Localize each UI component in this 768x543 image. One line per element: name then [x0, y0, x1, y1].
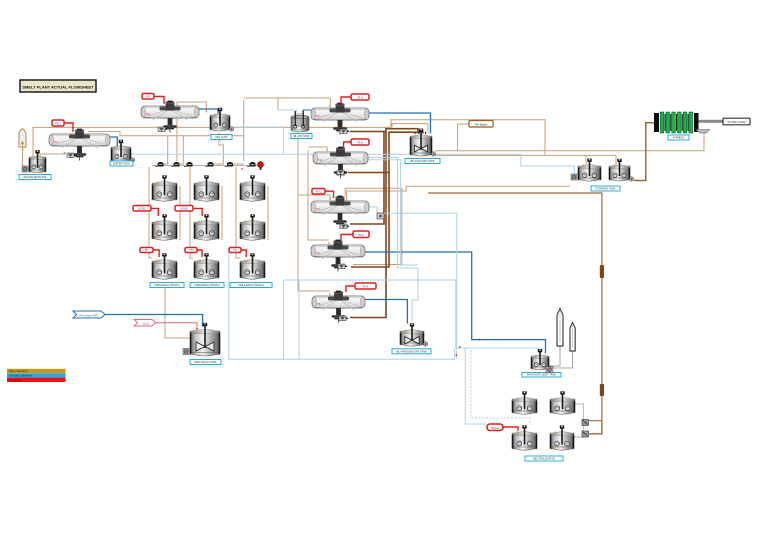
- tag CF-A: [351, 94, 369, 100]
- pump P4 valve row: [205, 162, 214, 167]
- coupling on brown vertical lower: [600, 384, 604, 396]
- ion exchange column IX2: [570, 323, 575, 352]
- pump P2 valve row: [171, 162, 180, 167]
- pipe blue CF-E overflow to BT2: [365, 300, 407, 324]
- arrow tan into CF-C: [329, 198, 331, 200]
- label leach train 2: [190, 283, 224, 288]
- pipe tan branch up to Pre-Beath box: [458, 124, 469, 151]
- pipe blue CF-A overflow to BT1: [369, 113, 431, 134]
- funnel under C2: [158, 127, 168, 132]
- label tank pair: [591, 186, 620, 191]
- tank N3: [512, 425, 537, 450]
- pipe tan MT2 inlet drop: [277, 98, 279, 110]
- funnel under CF-D: [338, 264, 348, 269]
- svg-text:PH: PH: [145, 249, 149, 252]
- arrow red small near valve row: [241, 168, 243, 170]
- svg-text:Pre-Beath: Pre-Beath: [475, 122, 488, 126]
- pipe tan CF-B inlet: [308, 147, 327, 151]
- arrow red on CF-D line: [479, 339, 481, 341]
- svg-text:Lime: Lime: [143, 321, 150, 325]
- pipe light-blue CF-B overflow companion: [367, 160, 418, 265]
- pipe tan grid col2 left drop: [190, 167, 193, 258]
- svg-text:MIX TANK: MIX TANK: [215, 135, 227, 139]
- svg-text:PRE-LEACH TRAIN 1: PRE-LEACH TRAIN 1: [154, 283, 180, 287]
- pipe light-blue box overflow line: [384, 213, 457, 359]
- label leach train 1: [150, 283, 184, 288]
- legend bar solution streams: [7, 373, 66, 377]
- tank ST3 wash water: [531, 349, 553, 370]
- pipe tan drop to valve P2: [180, 136, 183, 164]
- gray bar press to label: [697, 120, 723, 123]
- svg-text:FE-2: FE-2: [145, 95, 151, 98]
- pipe tan MT2 outlet to CF-C and CF-E: [298, 131, 330, 291]
- label MT2: [291, 134, 312, 139]
- pipe tan stub into storage tank TP1: [585, 155, 587, 170]
- tank leach R1C3: [240, 175, 265, 201]
- label neutralization: [525, 456, 563, 461]
- svg-text:NaOH: NaOH: [491, 426, 498, 430]
- arrow tan into CF-B: [326, 149, 328, 151]
- pipe tan ST1 riser long run to storage tanks: [33, 120, 545, 156]
- label ST3: [522, 373, 561, 378]
- svg-text:FE-1: FE-1: [55, 122, 61, 125]
- svg-text:PRE-LEACH TANK: PRE-LEACH TANK: [194, 360, 217, 364]
- red line T2 to C2 hub: [154, 97, 164, 105]
- red line CF-A tag: [341, 97, 351, 104]
- svg-text:T2: T2: [318, 158, 322, 162]
- arrow tan into CF-E: [329, 293, 331, 295]
- svg-text:Main Streams: Main Streams: [9, 369, 28, 373]
- red line pill to N3: [503, 427, 518, 431]
- svg-text:ML HANDLING MIX TANK: ML HANDLING MIX TANK: [396, 349, 427, 353]
- label ST1: [19, 175, 51, 180]
- thin line valve row: [152, 165, 258, 167]
- red pill tag: [487, 424, 503, 431]
- pipe gray tank TR to valve1: [575, 404, 584, 437]
- pipe brown branch valve2: [589, 421, 602, 434]
- thickener CF-D: [311, 240, 365, 272]
- red line CF-B tag: [344, 142, 351, 148]
- pipe tan stub into storage tank TP2: [615, 155, 617, 170]
- svg-text:T1: T1: [316, 114, 320, 118]
- pipe dark-brown CF-B funnel lateral: [348, 172, 389, 174]
- funnel under CF-C: [340, 224, 350, 229]
- arrow red lime into BT3: [196, 328, 198, 330]
- tank TP2 storage: [609, 159, 634, 182]
- tag T1 on C1: [52, 120, 64, 126]
- pipe tan thickener C1 overflow elbow: [88, 132, 244, 136]
- tank ST1 settler: [22, 150, 46, 173]
- arrow tan into CF-A: [329, 105, 331, 107]
- pipe gray column1 drain: [552, 346, 560, 366]
- label BT3: [190, 360, 221, 365]
- label leach train 3: [230, 283, 272, 288]
- pipe light-blue header y280 to ST3: [284, 280, 539, 353]
- tank ST2: [111, 140, 135, 162]
- pipe tan grid col1 right riser: [179, 186, 181, 240]
- pipe dark-brown CF-E funnel riser to BT1: [350, 129, 418, 318]
- valve VN2: [582, 431, 589, 437]
- tank leach R2C2: [194, 214, 219, 240]
- svg-text:FILTER CAKE: FILTER CAKE: [728, 120, 746, 124]
- tank MT2 twin agitator tank: [291, 111, 309, 132]
- pipe dark-brown CF-D funnel riser to BT1: [351, 132, 423, 267]
- svg-text:LEVEL: LEVEL: [180, 207, 188, 210]
- svg-text:FE-D: FE-D: [358, 234, 364, 237]
- pump P1 valve row: [155, 162, 164, 167]
- red ball valve end of row: [258, 162, 264, 171]
- tank leach R3C3: [240, 253, 265, 279]
- svg-text:F-PRESS: F-PRESS: [673, 136, 685, 140]
- legend bar reagents: [7, 378, 66, 382]
- svg-text:RE-PULP MIX TANK: RE-PULP MIX TANK: [411, 159, 435, 163]
- thickener C2: [141, 101, 199, 133]
- tag grid R3C1: [140, 248, 153, 253]
- funnel under CF-A: [340, 129, 350, 134]
- pipe light-blue drop to red pill tag: [465, 348, 486, 424]
- red line CF-E tag: [346, 286, 355, 292]
- svg-text:C2: C2: [146, 112, 150, 116]
- pipe tan long run BT1 pump to press funnel: [435, 133, 704, 151]
- label filter press: [668, 135, 689, 140]
- pipe gray tank BR to valve2: [573, 434, 584, 437]
- svg-text:STORAGE TANK: STORAGE TANK: [595, 187, 615, 191]
- arrow tan into V1: [21, 148, 24, 150]
- label MT1: [211, 135, 232, 140]
- pipe tan CF loop to CF-D: [345, 188, 402, 264]
- svg-text:T5: T5: [317, 302, 321, 306]
- pipe dark-brown CF-C funnel riser: [350, 132, 386, 225]
- filter press PF1: [654, 112, 699, 133]
- pipe light-blue drop to TP1 pump: [521, 154, 575, 177]
- tank BT2 ML handling: [400, 323, 428, 346]
- svg-text:T4: T4: [316, 251, 320, 255]
- svg-text:Pre-Leach SPL: Pre-Leach SPL: [80, 313, 99, 317]
- label ST2: [110, 161, 133, 166]
- thickener CF-E: [312, 291, 365, 323]
- valve VN1: [582, 420, 589, 426]
- svg-text:Reagents: Reagents: [9, 378, 22, 382]
- arrow tan into funnel F1: [64, 151, 66, 154]
- pipe tan drop to valve P1: [163, 136, 168, 164]
- tag grid R3C3: [229, 248, 241, 253]
- legend texts: [9, 369, 32, 382]
- pump P6 valve row: [247, 162, 256, 167]
- pipe blue C1 overflow to ST2: [110, 137, 117, 146]
- title block: [20, 80, 96, 92]
- funnel under CF-B: [337, 170, 347, 175]
- pump P3 valve row: [184, 162, 193, 167]
- pipe blue Pre-Leach SPL feed to BT3: [105, 315, 203, 328]
- pipe tan long vertical to neutralization tanks: [428, 193, 602, 421]
- svg-text:ML MIX TANK: ML MIX TANK: [293, 134, 310, 138]
- pipe light-blue CF-C overflow to box: [369, 207, 377, 213]
- coupling on brown vertical upper: [600, 265, 604, 278]
- tag grid R2C2: [175, 206, 193, 212]
- vessel V1 density column: [19, 129, 26, 147]
- pipe tan CF-B CF-D feeder: [308, 150, 329, 240]
- pipe tan branch to CF-C: [298, 195, 330, 200]
- svg-text:PH: PH: [233, 249, 237, 252]
- red line grid R3C1: [153, 250, 159, 257]
- red line grid R2C2: [193, 208, 202, 216]
- tank N1: [512, 391, 537, 414]
- brown box tag Pre-Beath: [469, 121, 493, 128]
- red line T1 to C1 hub: [64, 123, 73, 132]
- pipe tan grid col1 outlet to BT3: [165, 288, 190, 338]
- press discharge tray: [696, 130, 710, 134]
- svg-text:WASH EFFLUENT TANK: WASH EFFLUENT TANK: [527, 373, 556, 377]
- arrow red cluster 2: [455, 354, 457, 356]
- svg-text:SOLIDS SETTLING: SOLIDS SETTLING: [24, 175, 47, 179]
- funnel under CF-E: [339, 316, 349, 321]
- red line grid R2C1: [151, 208, 158, 216]
- tank leach R2C3: [240, 214, 265, 240]
- legend bar main streams: [7, 369, 66, 373]
- red line grid R3C2: [197, 250, 202, 257]
- svg-text:PRE-LEACH TRAIN 3: PRE-LEACH TRAIN 3: [238, 283, 264, 287]
- svg-text:Solution Streams: Solution Streams: [9, 374, 32, 378]
- tag CF-D: [353, 231, 369, 238]
- pipe blue CF-D overflow to ST3: [365, 252, 546, 353]
- pipe tan feed header storage tanks: [435, 154, 616, 156]
- tank leach R1C1: [152, 175, 177, 201]
- pipe gray column2 drain: [553, 351, 573, 368]
- svg-text:WATER TANK: WATER TANK: [113, 162, 130, 166]
- tank BT3 pre-leach: [183, 323, 220, 356]
- svg-text:FE-C: FE-C: [316, 190, 322, 193]
- pipe tan second valve header: [243, 100, 245, 161]
- svg-text:FE-E: FE-E: [363, 285, 369, 288]
- pipe tan valve-row header left: [177, 102, 206, 161]
- red line CF-D tag: [341, 235, 353, 242]
- arrow tan into CF-D: [328, 242, 330, 244]
- tank N2: [550, 391, 575, 414]
- pipe light-blue ST2 overflow long run: [131, 153, 521, 155]
- tank leach R3C1: [152, 253, 177, 279]
- tank leach R2C1: [152, 214, 177, 240]
- arrow red cluster 1: [459, 346, 461, 348]
- pipe tan MT1 outlet to valve row: [214, 133, 223, 164]
- pipe tan grid col3 right riser: [267, 186, 269, 240]
- tank BT1 repulp: [410, 129, 436, 157]
- pipe tan long run y186: [347, 186, 570, 201]
- tag CF-C: [312, 189, 325, 195]
- pipe blue C2 overflow to MT1: [199, 109, 218, 115]
- pipe tan link to valve P5: [234, 163, 244, 165]
- label BT2: [392, 349, 431, 354]
- red line CF-C tag: [325, 191, 334, 198]
- thickener CF-A: [311, 103, 369, 135]
- svg-text:NEUTRALIZATION: NEUTRALIZATION: [533, 457, 555, 461]
- thickener C1: [49, 129, 110, 161]
- thickener CF-B: [313, 147, 368, 179]
- pipe light-blue drop B to bottom header: [298, 280, 300, 359]
- pipe blue MT2 inlet 1 from CF-A: [303, 110, 311, 114]
- tank MT1 mix tank: [210, 108, 234, 131]
- pipe light-blue MT2 inlet 2: [278, 110, 297, 113]
- svg-text:T3: T3: [316, 207, 320, 211]
- thickener CF-C: [311, 196, 369, 228]
- svg-text:SMELT PLANT ACTUAL FLOWSHEET: SMELT PLANT ACTUAL FLOWSHEET: [22, 84, 94, 89]
- pipe tan MT2 feed header: [244, 98, 331, 107]
- tank TP1 storage: [571, 158, 601, 181]
- funnel under C1: [67, 153, 77, 158]
- pump P5 valve row: [225, 162, 234, 167]
- tank N4: [550, 425, 574, 450]
- pipe light-blue recycle rectangle: [229, 252, 455, 359]
- pipe tan grid col1 left drop: [149, 167, 152, 258]
- tag CF-E: [355, 283, 376, 289]
- tank leach R3C2: [194, 253, 219, 279]
- svg-text:C1: C1: [54, 140, 58, 144]
- pipe light-blue dashed drop to tank BL: [471, 350, 530, 425]
- tag grid R2C1: [133, 206, 151, 212]
- pipe light-blue CF-B overflow to BT2: [367, 158, 418, 324]
- pipe tan V1 outlet to ST1: [23, 147, 28, 170]
- tag T2 on C2: [142, 94, 154, 100]
- press closing ram white label: [723, 118, 750, 125]
- pump under columns: [546, 367, 553, 373]
- sampler box right of CF-C: [377, 213, 384, 219]
- svg-text:LEVEL: LEVEL: [138, 207, 146, 210]
- svg-text:FE-B: FE-B: [357, 141, 363, 144]
- pipe light-blue MT1 overflow: [231, 127, 284, 155]
- pipe brown TP2 pump to filter press: [634, 123, 654, 181]
- tag CF-B: [351, 139, 369, 145]
- pipe tan feed line to thickener C1 underflow funnel: [40, 154, 66, 157]
- red line grid R3C3: [241, 250, 246, 257]
- svg-text:PRE-LEACH TRAIN 2: PRE-LEACH TRAIN 2: [194, 283, 220, 287]
- label BT1: [405, 159, 440, 164]
- svg-text:PH: PH: [189, 249, 193, 252]
- ion exchange column IX1: [557, 309, 563, 347]
- pipe dark-brown CF-A funnel lateral: [350, 131, 384, 133]
- arrow tan into MT1: [205, 111, 207, 113]
- svg-text:FE-A: FE-A: [357, 96, 363, 99]
- arrow tag Lime: [134, 320, 156, 327]
- pipe pink lime line: [156, 323, 197, 329]
- arrow tag Pre-Leach SPL: [73, 311, 105, 318]
- pipe light-blue drop A to bottom header: [283, 280, 285, 359]
- tag grid R3C2: [185, 248, 197, 253]
- pipe tan grid col2 right riser: [221, 186, 223, 240]
- pipe tan grid col3 left drop: [236, 167, 240, 258]
- pipe tan BT1 top nozzle link: [392, 124, 428, 133]
- tank leach R1C2: [194, 175, 219, 201]
